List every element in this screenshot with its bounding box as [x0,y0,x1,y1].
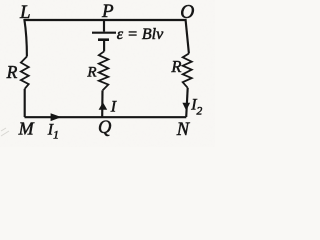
svg-text:R: R [170,57,181,76]
wire right to N [186,88,188,117]
wire top L-P-O [24,19,186,21]
svg-text:P: P [101,1,114,22]
resistor R2 (middle) [99,51,109,90]
resistor R3 (right) [183,54,192,88]
battery E short plate [98,38,109,41]
arrow I1 on bottom wire [51,113,62,121]
svg-text:M: M [18,119,35,139]
wire left to M [24,89,26,117]
arrow I2 down at N [182,103,190,111]
faint smudge bottom-left [1,128,9,136]
wire battery to R2 [103,41,105,52]
svg-text:N: N [176,120,191,140]
svg-text:R: R [86,64,96,80]
svg-text:O: O [180,2,194,23]
arrow I up at Q [99,102,108,110]
battery E long plate [92,32,116,34]
resistor R1 (left) [21,57,29,89]
svg-text:ε = Blv: ε = Blv [117,26,164,43]
svg-text:L: L [19,2,31,23]
wire P down to battery [103,19,105,32]
wire right O down [186,19,189,54]
wire R2 to Q [101,90,103,117]
svg-text:Q: Q [98,118,112,138]
wire left L down [24,19,27,57]
svg-text:I: I [110,98,117,115]
paper background [0,0,215,147]
svg-text:R: R [6,62,18,82]
wire bottom M-Q-N [25,116,187,118]
